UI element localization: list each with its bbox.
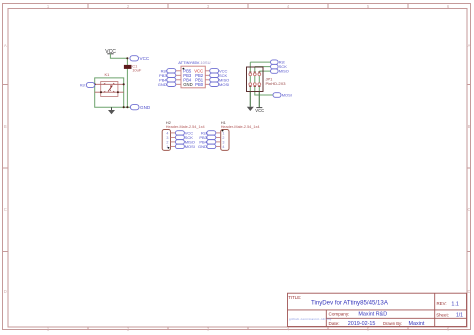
svg-text:Maxint: Maxint (409, 321, 425, 327)
svg-text:Header-Male-2.54_1x4: Header-Male-2.54_1x4 (166, 125, 205, 129)
svg-text:REV:: REV: (437, 301, 447, 306)
svg-text:GND: GND (140, 105, 151, 110)
svg-text:2: 2 (166, 140, 168, 144)
svg-text:2: 2 (222, 136, 224, 140)
svg-text:MOSI: MOSI (282, 93, 292, 98)
svg-text:3: 3 (222, 140, 224, 144)
svg-text:Drawn By:: Drawn By: (383, 321, 402, 326)
svg-text:Company:: Company: (329, 311, 350, 316)
svg-text:3: 3 (166, 136, 168, 140)
svg-text:A: A (468, 43, 471, 48)
svg-text:Rst: Rst (80, 84, 87, 88)
svg-text:1/1: 1/1 (456, 313, 463, 319)
svg-text:A: A (4, 43, 7, 48)
svg-text:Maxint R&D: Maxint R&D (358, 312, 387, 318)
svg-text:PinHD-2X3: PinHD-2X3 (266, 81, 287, 86)
svg-text:2019-02-15: 2019-02-15 (348, 321, 376, 327)
svg-text:GND: GND (183, 82, 192, 87)
svg-text:1: 1 (222, 131, 224, 135)
svg-text:B: B (468, 124, 471, 129)
svg-text:TinyDev for ATtiny85/45/13A: TinyDev for ATtiny85/45/13A (311, 299, 389, 306)
svg-text:MOSI: MOSI (185, 144, 195, 149)
svg-text:VCC: VCC (140, 56, 150, 61)
svg-text:Header-Male-2.54_1x4: Header-Male-2.54_1x4 (221, 125, 260, 129)
svg-text:10uF: 10uF (132, 67, 142, 72)
svg-text:ATTINY85V-10SU: ATTINY85V-10SU (178, 60, 210, 65)
svg-text:github.com/maxint-rd/tiny: github.com/maxint-rd/tiny (289, 317, 332, 321)
svg-text:D: D (4, 289, 7, 294)
svg-text:Sheet:: Sheet: (436, 312, 449, 317)
svg-text:B: B (4, 124, 7, 129)
svg-text:K1: K1 (105, 72, 111, 77)
svg-text:VCC: VCC (255, 108, 264, 113)
svg-text:TITLE:: TITLE: (288, 295, 301, 300)
svg-text:GND: GND (158, 82, 167, 87)
svg-text:4: 4 (222, 145, 224, 149)
svg-text:C: C (4, 207, 7, 212)
svg-text:MISO: MISO (279, 69, 289, 74)
svg-text:C: C (467, 207, 470, 212)
svg-text:D: D (467, 289, 470, 294)
svg-text:Date:: Date: (329, 321, 340, 326)
svg-text:4: 4 (166, 131, 168, 135)
svg-text:GND: GND (198, 144, 207, 149)
svg-text:PB0: PB0 (195, 82, 204, 87)
svg-text:1.1: 1.1 (451, 301, 459, 307)
svg-text:MOSI: MOSI (219, 82, 229, 87)
